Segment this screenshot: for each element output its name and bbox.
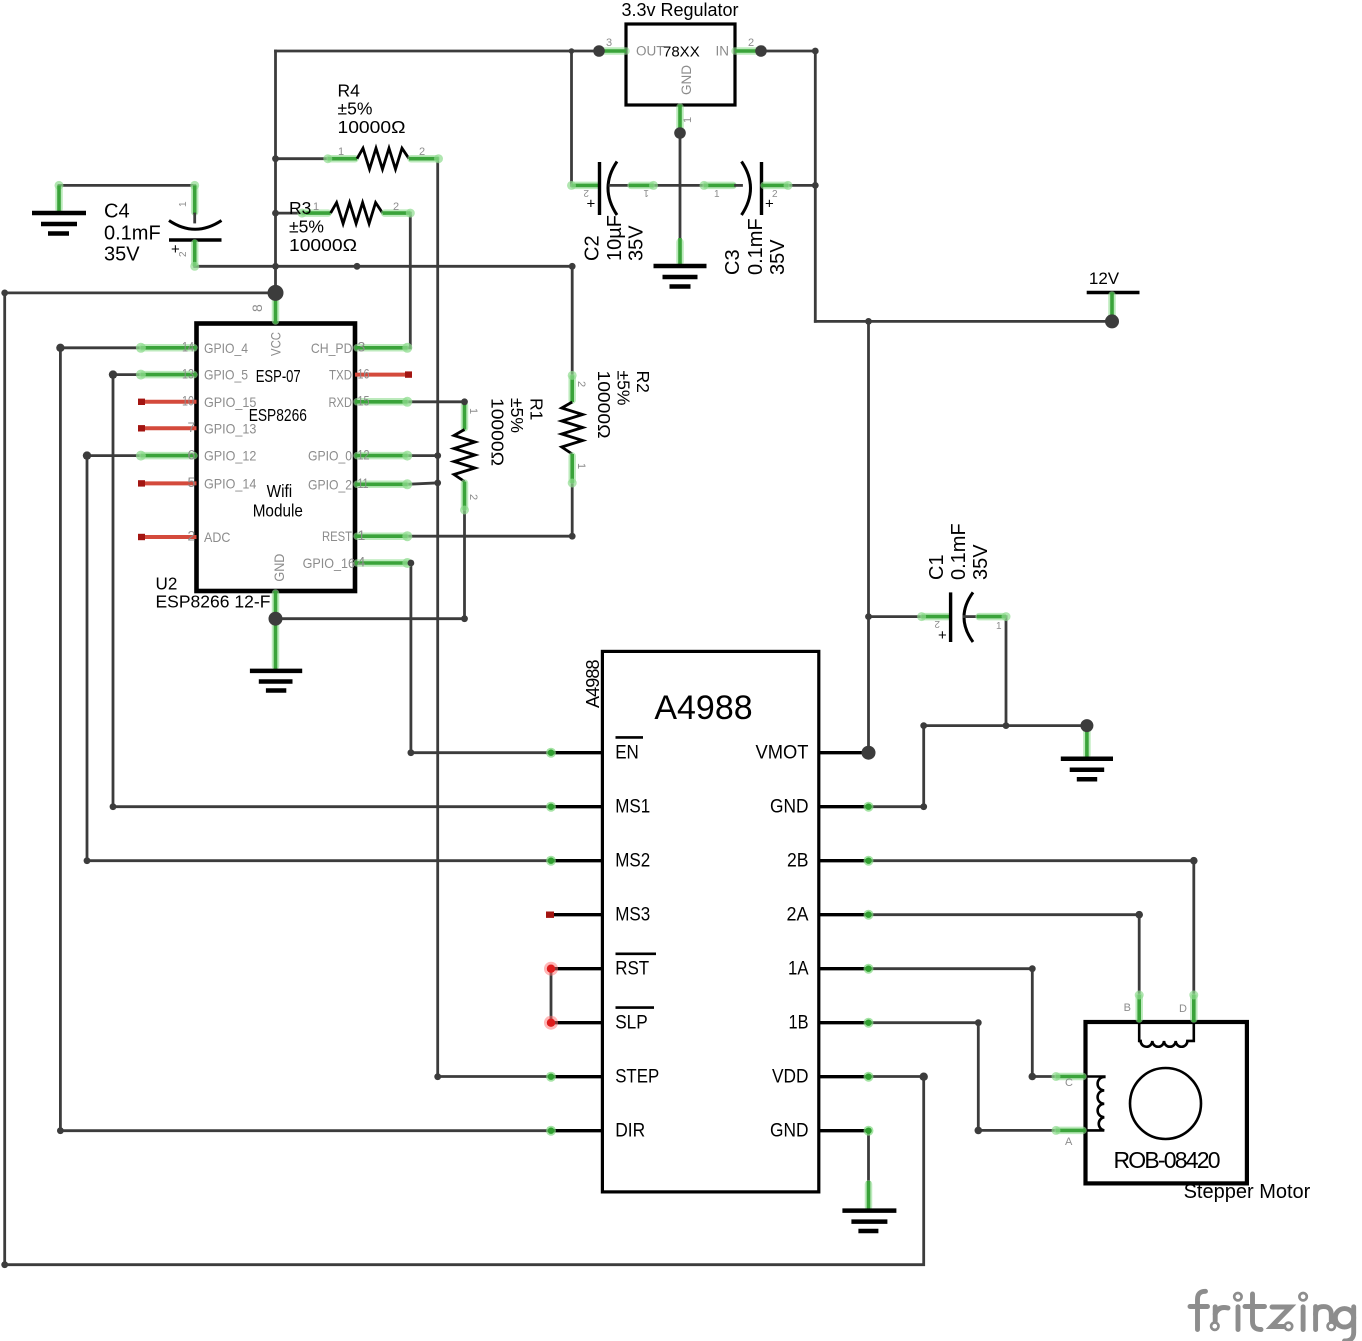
- wire cap rail C2 pin1 to C3 pin1: [654, 184, 705, 187]
- wire 2A to stepper B: [869, 915, 1140, 995]
- svg-text:1B: 1B: [789, 1012, 809, 1034]
- svg-text:Module: Module: [253, 501, 303, 521]
- wire C4 ground link: [59, 184, 195, 187]
- svg-text:ROB-08420: ROB-08420: [1114, 1147, 1221, 1173]
- stepper coil C-A (left): [1086, 1077, 1105, 1131]
- svg-text:VMOT: VMOT: [756, 742, 809, 764]
- resistor R4: [323, 80, 443, 169]
- junction dot ESP GND: [269, 612, 283, 626]
- ESP pin GPIO_2: [355, 479, 412, 489]
- wire GPIO_5 to MS1: [113, 375, 551, 807]
- svg-text:±5%: ±5%: [507, 398, 527, 433]
- svg-text:ESP-07: ESP-07: [256, 366, 301, 386]
- A4988 right pin GND2: [770, 1120, 874, 1142]
- svg-text:C2: C2: [582, 235, 604, 261]
- svg-text:VCC: VCC: [268, 332, 284, 356]
- svg-text:2: 2: [419, 146, 425, 158]
- svg-text:35V: 35V: [767, 239, 789, 275]
- svg-text:8: 8: [249, 304, 265, 312]
- ground (12V / C1 rail): [1061, 726, 1113, 780]
- svg-text:MS2: MS2: [615, 850, 650, 872]
- svg-text:GPIO_16: GPIO_16: [303, 555, 356, 571]
- ESP inner labels: [156, 366, 307, 611]
- A4988 left pin EN: [546, 737, 643, 763]
- svg-text:R3: R3: [289, 198, 311, 218]
- svg-text:±5%: ±5%: [338, 99, 373, 119]
- A4988 driver box: [583, 651, 819, 1192]
- ESP pin GPIO_15 (n/c): [138, 399, 197, 405]
- ESP pin TXD (n/c): [355, 371, 412, 377]
- svg-text:2: 2: [178, 251, 189, 257]
- wire RST-SLP link: [550, 969, 553, 1023]
- svg-text:35V: 35V: [626, 225, 648, 261]
- svg-text:C: C: [1065, 1077, 1073, 1089]
- resistor R3: [289, 198, 415, 255]
- svg-text:1: 1: [643, 187, 649, 198]
- regulator U1 78XX: [602, 0, 759, 130]
- svg-text:C3: C3: [722, 249, 744, 275]
- svg-text:2: 2: [575, 381, 587, 387]
- wire regulator GND down through caps to ground: [679, 133, 682, 238]
- svg-text:78XX: 78XX: [663, 44, 700, 61]
- svg-text:TXD: TXD: [329, 367, 352, 383]
- svg-text:1: 1: [467, 408, 479, 414]
- ESP pin VCC: [272, 293, 280, 324]
- svg-text:REST: REST: [322, 528, 352, 544]
- svg-text:3: 3: [606, 37, 612, 49]
- svg-text:2A: 2A: [787, 904, 809, 926]
- svg-text:D: D: [1179, 1003, 1187, 1015]
- wire VCC horizontal to far-left rail: [5, 293, 924, 1265]
- ground (ESP): [250, 619, 302, 691]
- svg-text:MS3: MS3: [615, 904, 650, 926]
- svg-text:1: 1: [313, 201, 319, 213]
- svg-text:10000Ω: 10000Ω: [594, 371, 614, 439]
- stepper coil B-D (top): [1139, 1022, 1194, 1047]
- ground (regulator): [654, 238, 707, 287]
- ESP pin GPIO_0: [355, 451, 412, 461]
- svg-text:35V: 35V: [104, 243, 140, 265]
- ESP pin GND stub: [272, 591, 280, 619]
- svg-text:1A: 1A: [788, 958, 809, 980]
- wire GPIO_12 to MS2: [87, 456, 551, 861]
- svg-text:2B: 2B: [787, 850, 809, 872]
- svg-text:DIR: DIR: [615, 1120, 645, 1142]
- svg-text:A: A: [1065, 1136, 1073, 1148]
- svg-text:13: 13: [182, 365, 194, 381]
- wire R3 pin2 down to CH_PD: [407, 213, 410, 348]
- svg-text:10: 10: [182, 393, 194, 409]
- junction dot VMOT: [862, 746, 876, 760]
- svg-text:C4: C4: [104, 200, 130, 222]
- svg-text:4: 4: [358, 554, 366, 570]
- wire 12V down to VMOT: [867, 321, 870, 752]
- svg-text:A4988: A4988: [583, 660, 603, 709]
- svg-text:ESP8266: ESP8266: [249, 405, 307, 425]
- ESP pin RXD: [355, 397, 412, 407]
- A4988 left pin SLP: [544, 1008, 654, 1034]
- svg-text:0.1mF: 0.1mF: [948, 523, 970, 580]
- A4988 right pin 2B: [787, 850, 874, 872]
- stepper pin A: [1052, 1126, 1086, 1148]
- svg-text:ESP8266 12-F: ESP8266 12-F: [156, 591, 271, 611]
- capacitor C4 0.1mF: [55, 181, 222, 271]
- svg-text:GND: GND: [271, 554, 287, 582]
- svg-text:R2: R2: [633, 371, 653, 393]
- wire 1A to stepper C: [869, 969, 1057, 1077]
- stepper label: [1184, 1181, 1311, 1203]
- A4988 right pin GND: [770, 796, 874, 818]
- A4988 left pin RST: [544, 954, 656, 980]
- svg-text:GND: GND: [770, 796, 809, 818]
- svg-text:1: 1: [338, 146, 344, 158]
- junction dot IN: [755, 45, 767, 57]
- svg-text:SLP: SLP: [615, 1012, 648, 1034]
- svg-text:A4988: A4988: [654, 689, 752, 727]
- svg-text:10000Ω: 10000Ω: [338, 117, 406, 137]
- ESP pin GPIO_12: [136, 451, 197, 461]
- A4988 left pin MS1: [546, 796, 650, 818]
- A4988 left pin STEP: [546, 1066, 659, 1088]
- svg-text:7: 7: [188, 419, 196, 435]
- wire GPIO_2 to STEP net: [407, 483, 437, 484]
- svg-text:GPIO_2: GPIO_2: [308, 476, 352, 492]
- junction dot right ground: [1080, 719, 1093, 732]
- svg-text:1: 1: [178, 201, 189, 207]
- svg-text:12V: 12V: [1089, 269, 1120, 288]
- wire 2B to stepper D: [869, 861, 1194, 995]
- bend dots: [1, 48, 1197, 1269]
- svg-text:5: 5: [188, 474, 196, 490]
- svg-text:Wifi: Wifi: [267, 481, 293, 501]
- svg-text:2: 2: [748, 37, 754, 49]
- wire C1 pin1 drop to ground rail: [1005, 617, 1008, 726]
- svg-text:15: 15: [358, 393, 370, 409]
- svg-text:3: 3: [358, 339, 366, 355]
- svg-text:2: 2: [583, 187, 589, 198]
- wire net 3.3V OUT horizontal: [276, 50, 603, 53]
- svg-text:GPIO_4: GPIO_4: [204, 340, 248, 356]
- ground (C4): [32, 185, 86, 233]
- svg-text:B: B: [1124, 1002, 1131, 1014]
- svg-text:1: 1: [714, 189, 720, 200]
- ESP pin GPIO_14 (n/c): [138, 480, 197, 486]
- svg-text:35V: 35V: [970, 544, 992, 580]
- stepper pin D: [1179, 991, 1198, 1023]
- svg-text:10000Ω: 10000Ω: [289, 235, 357, 255]
- svg-text:0.1mF: 0.1mF: [745, 218, 767, 275]
- svg-text:ADC: ADC: [204, 529, 230, 545]
- ESP pin GPIO_13 (n/c): [138, 425, 197, 431]
- svg-text:OUT: OUT: [636, 44, 665, 59]
- svg-text:11: 11: [358, 475, 369, 491]
- svg-text:10000Ω: 10000Ω: [488, 398, 508, 466]
- svg-text:2: 2: [772, 189, 778, 200]
- svg-text:1: 1: [682, 117, 694, 123]
- svg-text:STEP: STEP: [615, 1066, 659, 1088]
- A4988 right pin 1A: [788, 958, 874, 980]
- wire 3.3V vertical to VCC junction: [274, 51, 277, 293]
- svg-text:1: 1: [358, 527, 366, 543]
- ESP pin GPIO_16: [355, 558, 412, 568]
- svg-text:RXD: RXD: [329, 394, 353, 410]
- resistor R2: [562, 371, 653, 488]
- svg-text:IN: IN: [716, 44, 730, 59]
- ESP8266 module U2 box: [197, 324, 356, 592]
- wire R4 pin1 lead to 3.3V rail: [276, 157, 328, 160]
- ESP pin CH_PD: [355, 343, 412, 353]
- svg-text:2: 2: [934, 618, 940, 629]
- A4988 left pin DIR: [546, 1120, 645, 1142]
- svg-text:GPIO_12: GPIO_12: [204, 448, 257, 464]
- wire C3 pin2 to IN vertical: [788, 184, 815, 187]
- wire IN to corner: [759, 51, 815, 321]
- wire VMOT branch to C1 pin2: [869, 615, 922, 618]
- ESP pin GPIO_4: [136, 343, 197, 353]
- svg-text:16: 16: [358, 365, 370, 381]
- capacitor C3 0.1mF: [700, 162, 793, 276]
- svg-text:1: 1: [996, 621, 1002, 632]
- junction dot regulator GND: [674, 127, 686, 139]
- ESP pin numbers: [182, 304, 370, 570]
- resistor R1: [454, 398, 547, 515]
- wire R1 pin2 down to ESP GND junction: [276, 510, 465, 619]
- stepper pin C: [1052, 1072, 1086, 1089]
- ESP pin ADC (n/c): [138, 534, 197, 540]
- svg-text:Stepper Motor: Stepper Motor: [1184, 1181, 1311, 1203]
- svg-text:2: 2: [188, 528, 196, 544]
- ESP pin GPIO_5: [136, 370, 197, 380]
- svg-text:1: 1: [575, 463, 587, 469]
- svg-text:14: 14: [182, 339, 194, 355]
- svg-text:±5%: ±5%: [289, 217, 324, 237]
- A4988 right pin VMOT: [756, 742, 869, 764]
- svg-text:2: 2: [467, 494, 479, 500]
- A4988 right pin VDD: [772, 1066, 874, 1088]
- svg-text:GND: GND: [679, 65, 694, 95]
- fritzing logo: [1190, 1291, 1354, 1341]
- svg-text:3.3v Regulator: 3.3v Regulator: [621, 0, 738, 20]
- wire C4 pin2 to R2 pin2: [195, 266, 573, 375]
- A4988 right pin 2A: [787, 904, 874, 926]
- wire 1B to stepper A: [869, 1023, 1057, 1131]
- svg-text:MS1: MS1: [615, 796, 650, 818]
- capacitor C1 0.1mF: [917, 523, 1010, 644]
- 12V supply symbol: [1087, 269, 1140, 318]
- svg-text:±5%: ±5%: [614, 371, 634, 406]
- svg-text:GND: GND: [770, 1120, 809, 1142]
- stepper pin B: [1124, 991, 1144, 1023]
- ESP pin labels: [204, 332, 355, 582]
- wire 12V rail horizontal: [815, 320, 1112, 323]
- stepper motor ROB-08420 box: [1086, 1022, 1247, 1183]
- svg-text:0.1mF: 0.1mF: [104, 222, 161, 244]
- svg-text:GPIO_14: GPIO_14: [204, 475, 257, 491]
- svg-text:GPIO_0: GPIO_0: [308, 448, 352, 464]
- wire A4988 GND2 down to ground: [867, 1131, 870, 1181]
- svg-text:CH_PD: CH_PD: [311, 340, 353, 356]
- wire GPIO_4 to DIR: [60, 348, 551, 1131]
- wire RXD to R1 pin1: [407, 400, 464, 403]
- svg-text:2: 2: [393, 201, 399, 213]
- svg-text:10µF: 10µF: [604, 215, 626, 261]
- wire R4 pin2 long vertical to STEP: [438, 159, 551, 1077]
- svg-text:EN: EN: [615, 742, 639, 764]
- A4988 left pin MS2: [546, 850, 650, 872]
- svg-text:VDD: VDD: [772, 1066, 809, 1088]
- svg-text:R4: R4: [338, 80, 361, 100]
- A4988 left pin MS3 (n/c): [546, 904, 650, 926]
- A4988 right pin 1B: [789, 1012, 874, 1034]
- wire GPIO_16 down to EN: [407, 563, 551, 753]
- svg-text:RST: RST: [615, 958, 649, 980]
- junction dot OUT: [593, 45, 605, 57]
- svg-text:GPIO_5: GPIO_5: [204, 367, 248, 383]
- wire A4988 GND1 to right ground: [869, 726, 1087, 807]
- svg-text:12: 12: [358, 446, 370, 462]
- wire R3 pin1 lead to 3.3V rail: [276, 212, 303, 215]
- wire OUT branch down to C2 pin2: [570, 51, 573, 185]
- capacitor C2 10uF: [567, 162, 658, 262]
- ESP pin REST: [355, 531, 412, 541]
- wire GPIO_0 to STEP net: [407, 454, 437, 457]
- svg-text:R1: R1: [527, 398, 547, 420]
- wire REST to R2 pin1: [407, 483, 572, 536]
- svg-text:6: 6: [188, 446, 196, 462]
- junction dot 12V: [1105, 314, 1119, 328]
- svg-text:C1: C1: [926, 554, 948, 580]
- ground (A4988 GND2): [842, 1181, 896, 1231]
- junction dot VCC: [268, 285, 284, 301]
